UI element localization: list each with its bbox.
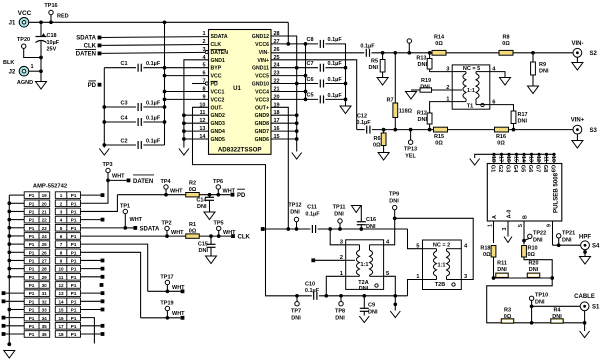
wire T2A pin5 riser to C10 row (384, 276, 396, 296)
IC PULSE B5008 body (487, 164, 562, 222)
svg-text:AMP-552742: AMP-552742 (33, 184, 67, 190)
AMP pin 6 box (55, 233, 80, 240)
svg-text:0.1µF: 0.1µF (328, 61, 343, 67)
AMP pin P1-23 box (24, 224, 50, 231)
ground chevron below U1 left gnd bus (179, 149, 189, 156)
svg-text:19: 19 (42, 193, 48, 198)
AMP pin 2 box (55, 200, 80, 207)
svg-text:P1: P1 (71, 324, 77, 329)
wire AMP pin10 stub (81, 268, 101, 270)
capacitor C5 0.1uF (320, 95, 345, 103)
svg-text:DNI: DNI (562, 238, 572, 244)
svg-text:AD8322TSSOP: AD8322TSSOP (218, 147, 262, 154)
net label DATEN lower (108, 175, 154, 185)
svg-text:TP8: TP8 (335, 309, 345, 315)
ground chevron below cap bus (99, 149, 109, 156)
AMP pin 3 box (55, 208, 80, 215)
svg-text:11: 11 (59, 275, 64, 280)
node R17 bottom (512, 128, 516, 132)
test point TP16 (49, 10, 53, 22)
node capbus C5 (344, 98, 348, 102)
svg-text:VIN+: VIN+ (257, 58, 269, 64)
wire AMP pin1 stub (81, 194, 101, 196)
PULSE pin 13 stub (527, 153, 533, 164)
svg-text:TP13: TP13 (404, 147, 417, 153)
svg-text:C9: C9 (368, 303, 375, 309)
svg-text:DNI: DNI (334, 212, 344, 218)
node gnd bus pin12 (182, 121, 186, 125)
svg-text:TP19: TP19 (160, 301, 173, 307)
svg-text:0.1µF: 0.1µF (305, 288, 320, 294)
wire P1-26 to gnd bus (9, 251, 24, 253)
wire AMP pin7 to TP17 (81, 244, 148, 291)
wire PD stub to U1 pin7 (192, 83, 205, 85)
AMP pin 18 box (55, 331, 80, 338)
svg-text:C7: C7 (306, 61, 313, 67)
wire P1-34 to left terminal (5, 317, 24, 319)
wire VCC distribution vertical (305, 44, 307, 100)
capacitor C10 0.1uF (314, 292, 317, 300)
svg-text:S2: S2 (590, 51, 598, 57)
svg-text:VCC5: VCC5 (255, 74, 269, 80)
svg-text:P1: P1 (71, 291, 77, 296)
ground chevron S1 (580, 331, 590, 338)
svg-text:PULSEB 5008: PULSEB 5008 (553, 172, 560, 213)
svg-text:0Ω: 0Ω (373, 143, 381, 149)
PULSE pin 17 stub (497, 153, 503, 164)
wire VIN- row from U1 pin26 (271, 52, 364, 54)
node TP22/B (522, 239, 526, 243)
node C1 row / VCC vert (163, 66, 167, 70)
test point TP5 (217, 226, 221, 236)
ground triangle C14 (204, 212, 215, 220)
resistor R7 118ohm (393, 53, 398, 130)
svg-text:DNI: DNI (418, 62, 428, 68)
svg-text:2: 2 (202, 39, 205, 45)
svg-text:0Ω: 0Ω (435, 141, 443, 147)
AMP pin P1-29 box (24, 274, 50, 281)
svg-text:32: 32 (42, 299, 48, 304)
ground triangle R6 (378, 153, 389, 161)
svg-text:13: 13 (58, 291, 64, 296)
svg-text:0.1µF: 0.1µF (356, 120, 371, 126)
wire pin15 stub (271, 138, 297, 140)
node gndbus pin18 (295, 113, 299, 117)
wire pin14 to gnd bus (184, 138, 209, 140)
node TP17 (166, 289, 170, 293)
node capbus C7 (344, 66, 348, 70)
svg-text:0.1µF: 0.1µF (328, 77, 343, 83)
svg-text:0Ω: 0Ω (483, 252, 491, 258)
svg-text:GND11: GND11 (252, 66, 269, 72)
wire AMP pin4 stub (81, 219, 101, 221)
svg-text:10: 10 (58, 267, 64, 272)
svg-text:0Ω: 0Ω (497, 141, 505, 147)
svg-text:0Ω: 0Ω (502, 41, 510, 47)
svg-text:P1: P1 (29, 283, 35, 288)
wire pin18 stub (271, 114, 297, 116)
wire R1 to CLK sq (199, 235, 231, 237)
svg-text:16: 16 (505, 156, 511, 162)
wire PULSE top gnd rail (475, 154, 554, 158)
svg-text:VIN+: VIN+ (571, 118, 585, 124)
svg-text:0.1µF: 0.1µF (305, 212, 320, 218)
svg-text:TP9: TP9 (389, 192, 399, 198)
svg-text:A: A (492, 215, 498, 219)
svg-text:3: 3 (502, 227, 508, 230)
ground triangle S2 (572, 63, 583, 71)
transformer T1 (452, 65, 490, 110)
wire C10 left (293, 295, 312, 297)
resistor R5 DNI (380, 53, 385, 78)
capacitor C4 0.1uF (104, 118, 164, 126)
U1 pin 15 name/number (255, 134, 280, 143)
U1 pin 18 name/number (255, 110, 280, 119)
svg-text:B: B (523, 215, 529, 219)
svg-text:J1: J1 (9, 21, 16, 27)
U1 pin 23 name/number (255, 71, 279, 80)
node C16 (359, 227, 363, 231)
svg-text:1: 1 (31, 64, 34, 70)
svg-text:GND6: GND6 (255, 137, 270, 143)
capacitor C12 0.1uF (367, 126, 370, 134)
svg-text:TP4: TP4 (160, 179, 171, 185)
wire CLK row (81, 235, 186, 237)
node vcc/pin23 (304, 74, 308, 78)
node TP9 (393, 216, 397, 220)
node R6 top (382, 128, 386, 132)
resistor R9 DNI (531, 53, 536, 86)
U1 pin 26 name/number (259, 47, 280, 56)
PULSE pin 1 (A) (487, 215, 498, 243)
U1 pin 10 name/number (199, 102, 223, 111)
svg-text:5: 5 (60, 226, 63, 231)
svg-text:18: 18 (490, 156, 496, 162)
connector S1 CABLE (580, 302, 589, 311)
svg-text:C2: C2 (120, 138, 127, 144)
svg-text:1:1: 1:1 (361, 262, 369, 268)
svg-text:NC = 2: NC = 2 (433, 242, 450, 248)
AMP pin 11 box (55, 274, 80, 281)
svg-text:11: 11 (542, 156, 548, 162)
U1 pin 22 name/number (252, 79, 280, 88)
node VCC rail / C18 (39, 20, 43, 24)
svg-text:GND12: GND12 (252, 34, 269, 40)
node gnd bus pin11 (182, 113, 186, 117)
node TP21 (557, 243, 561, 247)
net label CLK lower (231, 234, 250, 240)
connector J2 AGND (19, 66, 29, 76)
wire AMP pin18 stub (81, 333, 101, 335)
svg-text:BLK: BLK (3, 60, 14, 66)
resistor R6 0ohm (381, 130, 386, 153)
svg-text:PD: PD (88, 83, 97, 89)
svg-text:15: 15 (58, 308, 64, 313)
svg-text:DNI: DNI (291, 316, 301, 322)
AMP pin 16 box (55, 314, 80, 321)
wire stub gnd arrow right of C9 (394, 296, 396, 311)
svg-text:P1: P1 (71, 218, 77, 223)
svg-text:1:1: 1:1 (467, 88, 475, 94)
svg-text:P1: P1 (29, 210, 35, 215)
PULSE pin 5 (B) (518, 215, 529, 245)
wire AMP pin15 stub (81, 308, 101, 310)
svg-text:C15: C15 (198, 242, 208, 248)
test point TP11 DNI (338, 219, 342, 229)
AMP pin P1-35 box (24, 323, 50, 330)
svg-text:P1: P1 (29, 299, 35, 304)
svg-text:VCC6: VCC6 (255, 42, 269, 48)
terminal TP19 (181, 316, 185, 320)
svg-text:8: 8 (202, 86, 205, 92)
svg-text:R19: R19 (421, 78, 431, 84)
svg-text:WHT: WHT (130, 217, 143, 223)
resistor R13 DNI (427, 53, 452, 72)
svg-text:VCC: VCC (211, 74, 222, 80)
test point TP20 (22, 44, 42, 58)
node VCC rail / U1 left VCC feed (163, 20, 167, 24)
svg-text:DNI: DNI (497, 267, 507, 273)
node R10 jog bottom (550, 276, 554, 280)
svg-text:DNI: DNI (389, 199, 399, 205)
AMP pin 10 box (55, 265, 80, 272)
svg-text:2: 2 (60, 201, 63, 206)
test point TP6 (216, 185, 220, 195)
wire AMP pin17 stub (81, 325, 101, 327)
wire P1-24 to gnd bus (9, 235, 24, 237)
ground triangle T1 pin4 (500, 78, 511, 86)
wire TP10 to S1 (532, 305, 581, 307)
node R9 top (531, 51, 535, 55)
wire pin12 to gnd bus (184, 122, 209, 124)
svg-text:P1: P1 (29, 324, 35, 329)
test point TP21 DNI (557, 234, 561, 246)
node TP11 (338, 227, 342, 231)
wire AMP pin5 to SDATA (81, 227, 126, 229)
wire R2 to PD sq (199, 194, 230, 196)
wire VIN- row to R14 (372, 52, 433, 54)
svg-text:36: 36 (42, 332, 48, 337)
wire T2A pin1 to C10 row (326, 276, 345, 296)
node capbus C6 (344, 82, 348, 86)
node bus/C3 (102, 105, 106, 109)
resistor R4 DNI (551, 319, 564, 323)
wire AMP left gnd bus (8, 195, 10, 344)
AMP pin P1-20 box (24, 200, 50, 207)
svg-text:P1: P1 (71, 332, 77, 337)
AMP pin P1-22 box (24, 216, 50, 223)
test point TP12 DNI (294, 217, 298, 229)
test point TP13 YEL (408, 130, 412, 145)
capacitor C2 0.1uF (104, 141, 164, 149)
svg-text:P1: P1 (71, 226, 77, 231)
AMP pin P1-25 box (24, 241, 50, 248)
AMP pin P1-36 box (24, 331, 50, 338)
svg-text:P1: P1 (71, 275, 77, 280)
wire AMP pin13 stub (81, 292, 101, 294)
ground triangle R5 (377, 78, 388, 86)
PULSE pin 12 stub (535, 153, 541, 164)
connector S2 VIN- (573, 48, 582, 57)
node VCC/pin8 (163, 90, 167, 94)
wire OUT+ from U1 pin19 (271, 107, 297, 229)
svg-text:GND5: GND5 (211, 137, 226, 143)
node R12 bottom (428, 128, 432, 132)
wire DATEN to U1 pin3 (101, 52, 205, 53)
AMP pin P1-32 box (24, 298, 50, 305)
svg-text:OUT-: OUT- (211, 105, 224, 111)
ground chevron PULSE rail (470, 159, 480, 166)
wire J2 to AGND rail (29, 70, 41, 72)
wire VIN+ from U1 pin25 down (271, 60, 357, 130)
svg-text:P1: P1 (29, 275, 35, 280)
svg-text:VCC1: VCC1 (211, 89, 225, 95)
svg-text:VCC: VCC (18, 10, 32, 17)
node TP stem (407, 51, 411, 55)
AMP pin 4 box (55, 216, 80, 223)
node T2A pin3 riser (328, 227, 332, 231)
wire A/B net to bottom row (487, 278, 553, 323)
svg-text:21: 21 (42, 210, 48, 215)
wire cap gnd bus right (345, 53, 347, 106)
svg-text:12: 12 (58, 283, 64, 288)
svg-text:VIN-: VIN- (572, 41, 584, 47)
svg-text:P1: P1 (71, 234, 77, 239)
svg-text:0.1µF: 0.1µF (328, 93, 343, 99)
svg-text:24: 24 (42, 234, 48, 239)
svg-text:DNI: DNI (539, 69, 549, 75)
U1 pin 28 name/number (252, 31, 280, 40)
resistor R8 0ohm (499, 50, 513, 55)
wire S3 to gnd (576, 134, 578, 141)
U1 pin 3 name/number (202, 47, 228, 56)
node rail/pin27 (286, 42, 290, 46)
PULSE pin 10 stub (550, 153, 556, 164)
svg-text:10µF: 10µF (47, 40, 60, 46)
svg-text:0Ω: 0Ω (528, 252, 536, 258)
wire R16 to S3 (509, 129, 573, 131)
svg-text:GND7: GND7 (255, 129, 270, 135)
node S1 shell (583, 321, 587, 325)
ground triangle S3 (572, 141, 583, 149)
svg-text:DNI: DNI (290, 210, 300, 216)
svg-text:P1: P1 (71, 267, 77, 272)
node TP5 (217, 234, 221, 238)
svg-text:R20: R20 (528, 261, 538, 267)
svg-text:17: 17 (497, 156, 503, 162)
svg-text:TP22: TP22 (533, 231, 546, 237)
svg-text:SDATA: SDATA (211, 34, 228, 40)
svg-text:0Ω: 0Ω (189, 229, 197, 235)
svg-text:0.1µF: 0.1µF (360, 44, 375, 50)
svg-text:WHT: WHT (170, 189, 183, 195)
capacitor C15 DNI (207, 236, 216, 256)
svg-text:P1: P1 (29, 291, 35, 296)
node VCC/pin9 (163, 98, 167, 102)
svg-text:5: 5 (202, 63, 205, 69)
svg-text:DNI: DNI (366, 224, 376, 230)
svg-text:CLK: CLK (238, 235, 251, 241)
svg-text:SDATA: SDATA (76, 36, 96, 42)
svg-text:13: 13 (199, 126, 205, 132)
AMP pin 17 box (55, 323, 80, 330)
wire VCC rail (29, 21, 289, 23)
wire T2B pin1 to C10 row (408, 280, 423, 296)
resistor R3 0ohm (501, 319, 514, 323)
svg-text:R9: R9 (539, 62, 546, 68)
ground triangle AMP bus (4, 351, 15, 359)
node TP10 column (530, 321, 534, 325)
svg-text:0Ω: 0Ω (504, 314, 512, 320)
svg-text:GND1: GND1 (211, 58, 226, 64)
svg-text:TP10: TP10 (535, 293, 548, 299)
svg-text:25: 25 (42, 242, 48, 247)
svg-text:DNI: DNI (335, 316, 345, 322)
wire P1-22 to gnd bus (9, 219, 24, 221)
node TP6 (216, 193, 220, 197)
net label PD lower (231, 189, 246, 199)
ground triangle C15 (206, 256, 217, 264)
svg-text:R2: R2 (189, 181, 196, 187)
svg-text:DNI: DNI (529, 267, 539, 273)
node gnd bus pin14 (182, 137, 186, 141)
svg-text:PD: PD (237, 193, 246, 199)
svg-text:TP16: TP16 (44, 3, 57, 9)
svg-text:9: 9 (60, 259, 63, 264)
svg-text:G6: G6 (527, 165, 533, 173)
resistor R19 DNI (411, 88, 432, 92)
node T2A pin5 riser (393, 294, 397, 298)
svg-text:R15: R15 (434, 134, 444, 140)
resistor R11 DNI (496, 273, 509, 277)
svg-text:C11: C11 (307, 205, 317, 211)
svg-text:C12: C12 (357, 114, 367, 120)
svg-text:1:1: 1:1 (438, 263, 446, 269)
terminal AMP pin12 (100, 283, 104, 287)
svg-text:P1: P1 (29, 226, 35, 231)
svg-text:R6: R6 (373, 136, 380, 142)
AMP pin P1-28 box (24, 265, 50, 272)
svg-text:DNI: DNI (533, 238, 543, 244)
svg-text:P1: P1 (29, 259, 35, 264)
test point TP1 (123, 209, 127, 228)
ground chevron stub (390, 311, 400, 318)
PULSE pin 9 (546, 221, 552, 245)
node gndbus pin24 (295, 66, 299, 70)
wire TP17 row (148, 290, 181, 292)
terminal T2A pin2 (311, 258, 315, 262)
node bus bottom (7, 342, 11, 346)
svg-text:S3: S3 (590, 128, 598, 134)
svg-text:TP3: TP3 (102, 162, 112, 168)
wire P1-28 to gnd bus (9, 268, 24, 270)
AMP pin 12 box (55, 282, 80, 289)
svg-text:6: 6 (202, 71, 205, 77)
svg-text:P1: P1 (29, 267, 35, 272)
svg-text:18: 18 (58, 332, 64, 337)
svg-text:3: 3 (202, 47, 205, 53)
PULSE pin 14 stub (520, 153, 526, 164)
svg-text:P1: P1 (71, 242, 77, 247)
svg-text:0Ω: 0Ω (435, 41, 443, 47)
svg-text:G2: G2 (497, 165, 503, 173)
svg-text:14: 14 (58, 299, 64, 304)
wire pin23 stub (271, 75, 306, 77)
svg-text:1: 1 (202, 31, 205, 37)
node R5 top (381, 51, 385, 55)
svg-text:R16: R16 (496, 134, 506, 140)
resistor R18 0ohm (491, 246, 496, 279)
